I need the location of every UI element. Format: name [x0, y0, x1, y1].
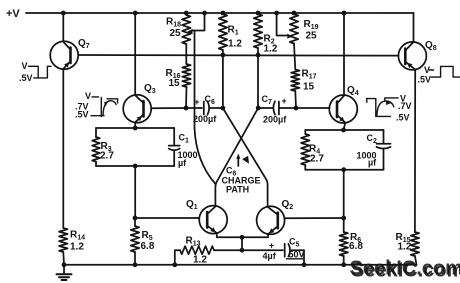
wire emitter join Q1 Q2 — [217, 236, 268, 238]
svg-text:25: 25 — [306, 31, 318, 42]
svg-text:1.2: 1.2 — [228, 39, 242, 50]
wire C6 right to Q2 collector — [223, 108, 268, 206]
wire Q2 emitter — [267, 234, 269, 237]
wire Q8 emitter to R15 — [414, 70, 416, 232]
junction ground rail / R13 leg — [172, 262, 177, 267]
wire R6 to ground rail — [343, 256, 345, 265]
arrow C6 charge path pointer — [236, 154, 240, 167]
wire R5 to ground rail — [134, 252, 136, 265]
junction +V rail / Q4 collector — [342, 11, 347, 16]
wire R13 to C5 — [214, 249, 283, 251]
wire tank top right — [305, 129, 383, 131]
svg-text:SeekIC.com: SeekIC.com — [351, 260, 460, 282]
resistor R18 — [182, 15, 190, 44]
resistor R6 — [340, 232, 348, 256]
svg-text:+V: +V — [6, 8, 20, 20]
wire Q3 base to C6 node — [151, 107, 186, 109]
junction ground rail / R5 — [133, 262, 138, 267]
junction R13 C5 line — [240, 248, 245, 253]
svg-text:V: V — [22, 61, 28, 71]
junction tank2 top / Q4 emitter — [341, 128, 346, 133]
junction +V rail / R1 top — [221, 11, 226, 16]
svg-text:25: 25 — [170, 28, 182, 39]
wire node to R6 — [343, 218, 345, 232]
resistor R15 — [411, 232, 419, 256]
wire Q1 emitter — [216, 233, 218, 237]
svg-text:.5V: .5V — [19, 73, 33, 83]
svg-text:4µf: 4µf — [263, 251, 277, 261]
junction Q2 base node / R6 top — [341, 216, 346, 221]
waveform input Q3 — [91, 97, 118, 117]
junction ground rail / R6 — [341, 262, 346, 267]
resistor R13 — [180, 246, 214, 254]
wire Q7 emitter to R14 — [62, 69, 64, 228]
svg-text:200µf: 200µf — [263, 115, 287, 125]
ground — [57, 265, 72, 280]
junction base rail / R2 bottom — [256, 53, 261, 58]
junction ground rail left — [62, 262, 67, 267]
wire R17 to C7 right — [294, 91, 297, 108]
capacitor C7 — [258, 101, 296, 114]
junction emitter join — [240, 235, 245, 240]
waveform output Q4 — [367, 98, 398, 117]
wire R18 to R16 — [185, 44, 187, 64]
wire tank bottom to Q1 base node — [134, 166, 136, 218]
wire base rail Q7 base to Q8 base — [78, 54, 398, 57]
transistor Q3 — [123, 13, 151, 123]
wire R15 to ground rail — [415, 256, 417, 265]
wire C7 right to Q4 base — [296, 107, 329, 109]
capacitor C2 — [377, 130, 391, 170]
wire C7 left to Q1 collector — [215, 108, 258, 206]
wire emitter to R13 C5 line — [241, 237, 243, 250]
wire Q1 base — [135, 217, 199, 219]
wire base rail to C7 left — [257, 55, 259, 108]
svg-text:50V: 50V — [289, 250, 305, 260]
wire node to R5 — [134, 218, 136, 226]
junction node C6 left — [184, 106, 189, 111]
svg-text:1.2: 1.2 — [398, 242, 412, 253]
capacitor C6 — [186, 101, 223, 114]
wire R18 wiper — [187, 13, 204, 34]
svg-text:V: V — [85, 91, 91, 101]
svg-text:+: + — [269, 241, 274, 251]
wire R16 to C6 node — [185, 87, 188, 108]
wire wiper to Q1 collector — [195, 31, 216, 185]
wire tank top left — [96, 127, 174, 129]
junction Q1 base node — [133, 216, 138, 221]
svg-text:µf: µf — [178, 158, 187, 168]
junction base rail / R1 bottom — [221, 53, 226, 58]
arrow on Q4 waveform — [386, 101, 391, 106]
waveform input Q7 — [29, 66, 52, 78]
svg-text:15: 15 — [169, 78, 181, 89]
junction +V rail / Q7 collector — [61, 11, 66, 16]
wire R19 wiper — [277, 13, 293, 39]
junction +V rail / R2 top — [256, 11, 261, 16]
resistor R3 — [92, 128, 100, 166]
svg-text:.5V: .5V — [75, 110, 89, 120]
resistor R17 — [291, 70, 299, 92]
resistor R14 — [59, 228, 67, 252]
junction node C6 right — [220, 106, 225, 111]
junction tank2 bottom — [341, 167, 346, 172]
svg-text:2.7: 2.7 — [100, 151, 114, 162]
wire Q3 emitter to tank — [134, 123, 136, 128]
svg-text:PATH: PATH — [226, 185, 249, 195]
wire tank bottom right — [305, 169, 383, 171]
svg-text:15: 15 — [303, 82, 315, 93]
junction node C7 left — [256, 106, 261, 111]
svg-text:6.8: 6.8 — [349, 241, 363, 252]
junction +V rail / Q3 collector — [133, 11, 138, 16]
svg-text:µf: µf — [368, 158, 377, 168]
wire tank bottom to R6 node — [343, 170, 345, 218]
svg-text:.7V: .7V — [398, 101, 412, 111]
transistor Q8 — [398, 13, 426, 70]
wire base rail to C6 right — [222, 55, 224, 108]
junction +V rail / R18 top — [184, 11, 189, 16]
capacitor C1 — [169, 128, 180, 166]
junction tank1 top / Q3 emitter — [133, 126, 138, 131]
svg-text:200µf: 200µf — [193, 114, 217, 124]
transistor Q2 — [257, 206, 285, 234]
wire bottom ground rail — [64, 264, 417, 266]
wire R1 bottom — [222, 50, 224, 55]
svg-text:1.2: 1.2 — [193, 255, 207, 266]
junction +V rail / R19 wiper — [274, 11, 279, 16]
svg-text:6.8: 6.8 — [141, 241, 155, 252]
wire C5 right to ground — [303, 250, 305, 265]
wire R13 left leg to ground — [175, 250, 180, 265]
transistor Q7 — [50, 13, 78, 69]
resistor R4 — [301, 130, 309, 170]
waveform output Q8 — [430, 66, 460, 77]
junction node C7 right — [294, 106, 299, 111]
wire R14 to ground rail — [62, 252, 65, 265]
junction +V rail / R19 top — [292, 11, 297, 16]
capacitor C5 — [285, 244, 304, 257]
junction tank1 bottom — [133, 164, 138, 169]
wire tank bottom left — [96, 165, 174, 167]
wire R19 to R17 — [294, 44, 295, 70]
arrow on Q3 waveform — [104, 101, 108, 107]
wire +V top rail — [26, 12, 414, 14]
resistor R19 — [290, 14, 298, 44]
transistor Q1 — [199, 206, 227, 234]
transistor Q4 — [329, 13, 357, 123]
resistor R16 — [182, 64, 190, 87]
arrowhead on charge path diagonal — [242, 156, 249, 164]
junction ground rail / C5 leg — [302, 262, 307, 267]
wire 50V box underline — [287, 258, 305, 260]
wire Q4 emitter to tank — [344, 123, 346, 130]
junction +V rail / R18 wiper — [202, 11, 207, 16]
svg-text:.5V: .5V — [418, 74, 432, 84]
resistor R1 — [219, 14, 227, 50]
resistor R5 — [131, 226, 139, 252]
resistor R2 — [254, 14, 262, 48]
wire Q2 base to R6 node — [285, 217, 344, 219]
svg-text:1.2: 1.2 — [70, 242, 84, 253]
wire R2 bottom — [257, 48, 259, 55]
svg-text:+: + — [282, 96, 287, 106]
svg-text:.5V: .5V — [396, 113, 410, 123]
svg-text:2.7: 2.7 — [310, 154, 324, 165]
svg-text:1.2: 1.2 — [264, 44, 278, 55]
svg-text:+: + — [194, 97, 199, 107]
